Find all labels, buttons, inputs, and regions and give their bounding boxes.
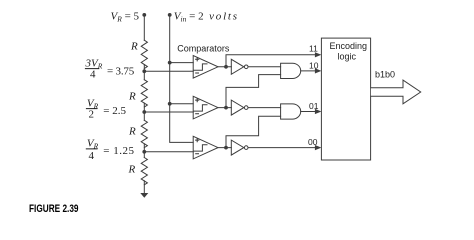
svg-text:VR = 5: VR = 5 (111, 10, 140, 23)
svg-text:R: R (128, 91, 136, 103)
svg-text:b1b0: b1b0 (375, 70, 395, 80)
svg-text:VR: VR (87, 138, 99, 151)
svg-text:4: 4 (89, 150, 95, 162)
svg-text:R: R (130, 41, 138, 53)
svg-text:10: 10 (309, 60, 319, 70)
svg-text:FIGURE 2.39: FIGURE 2.39 (29, 203, 79, 215)
svg-text:Encoding: Encoding (330, 41, 368, 51)
svg-text:4: 4 (90, 69, 96, 81)
svg-text:= 3.75: = 3.75 (107, 65, 135, 77)
svg-text:= 2.5: = 2.5 (103, 105, 126, 117)
svg-text:Vin = 2 volts: Vin = 2 volts (174, 10, 239, 23)
svg-text:2: 2 (89, 109, 95, 121)
svg-text:= 1.25: = 1.25 (103, 145, 134, 157)
svg-text:01: 01 (309, 101, 319, 111)
svg-text:R: R (128, 126, 136, 138)
svg-text:Comparators: Comparators (177, 44, 230, 54)
svg-text:00: 00 (308, 137, 318, 147)
svg-text:11: 11 (309, 44, 318, 54)
svg-text:logic: logic (338, 51, 357, 61)
svg-text:R: R (128, 164, 136, 176)
